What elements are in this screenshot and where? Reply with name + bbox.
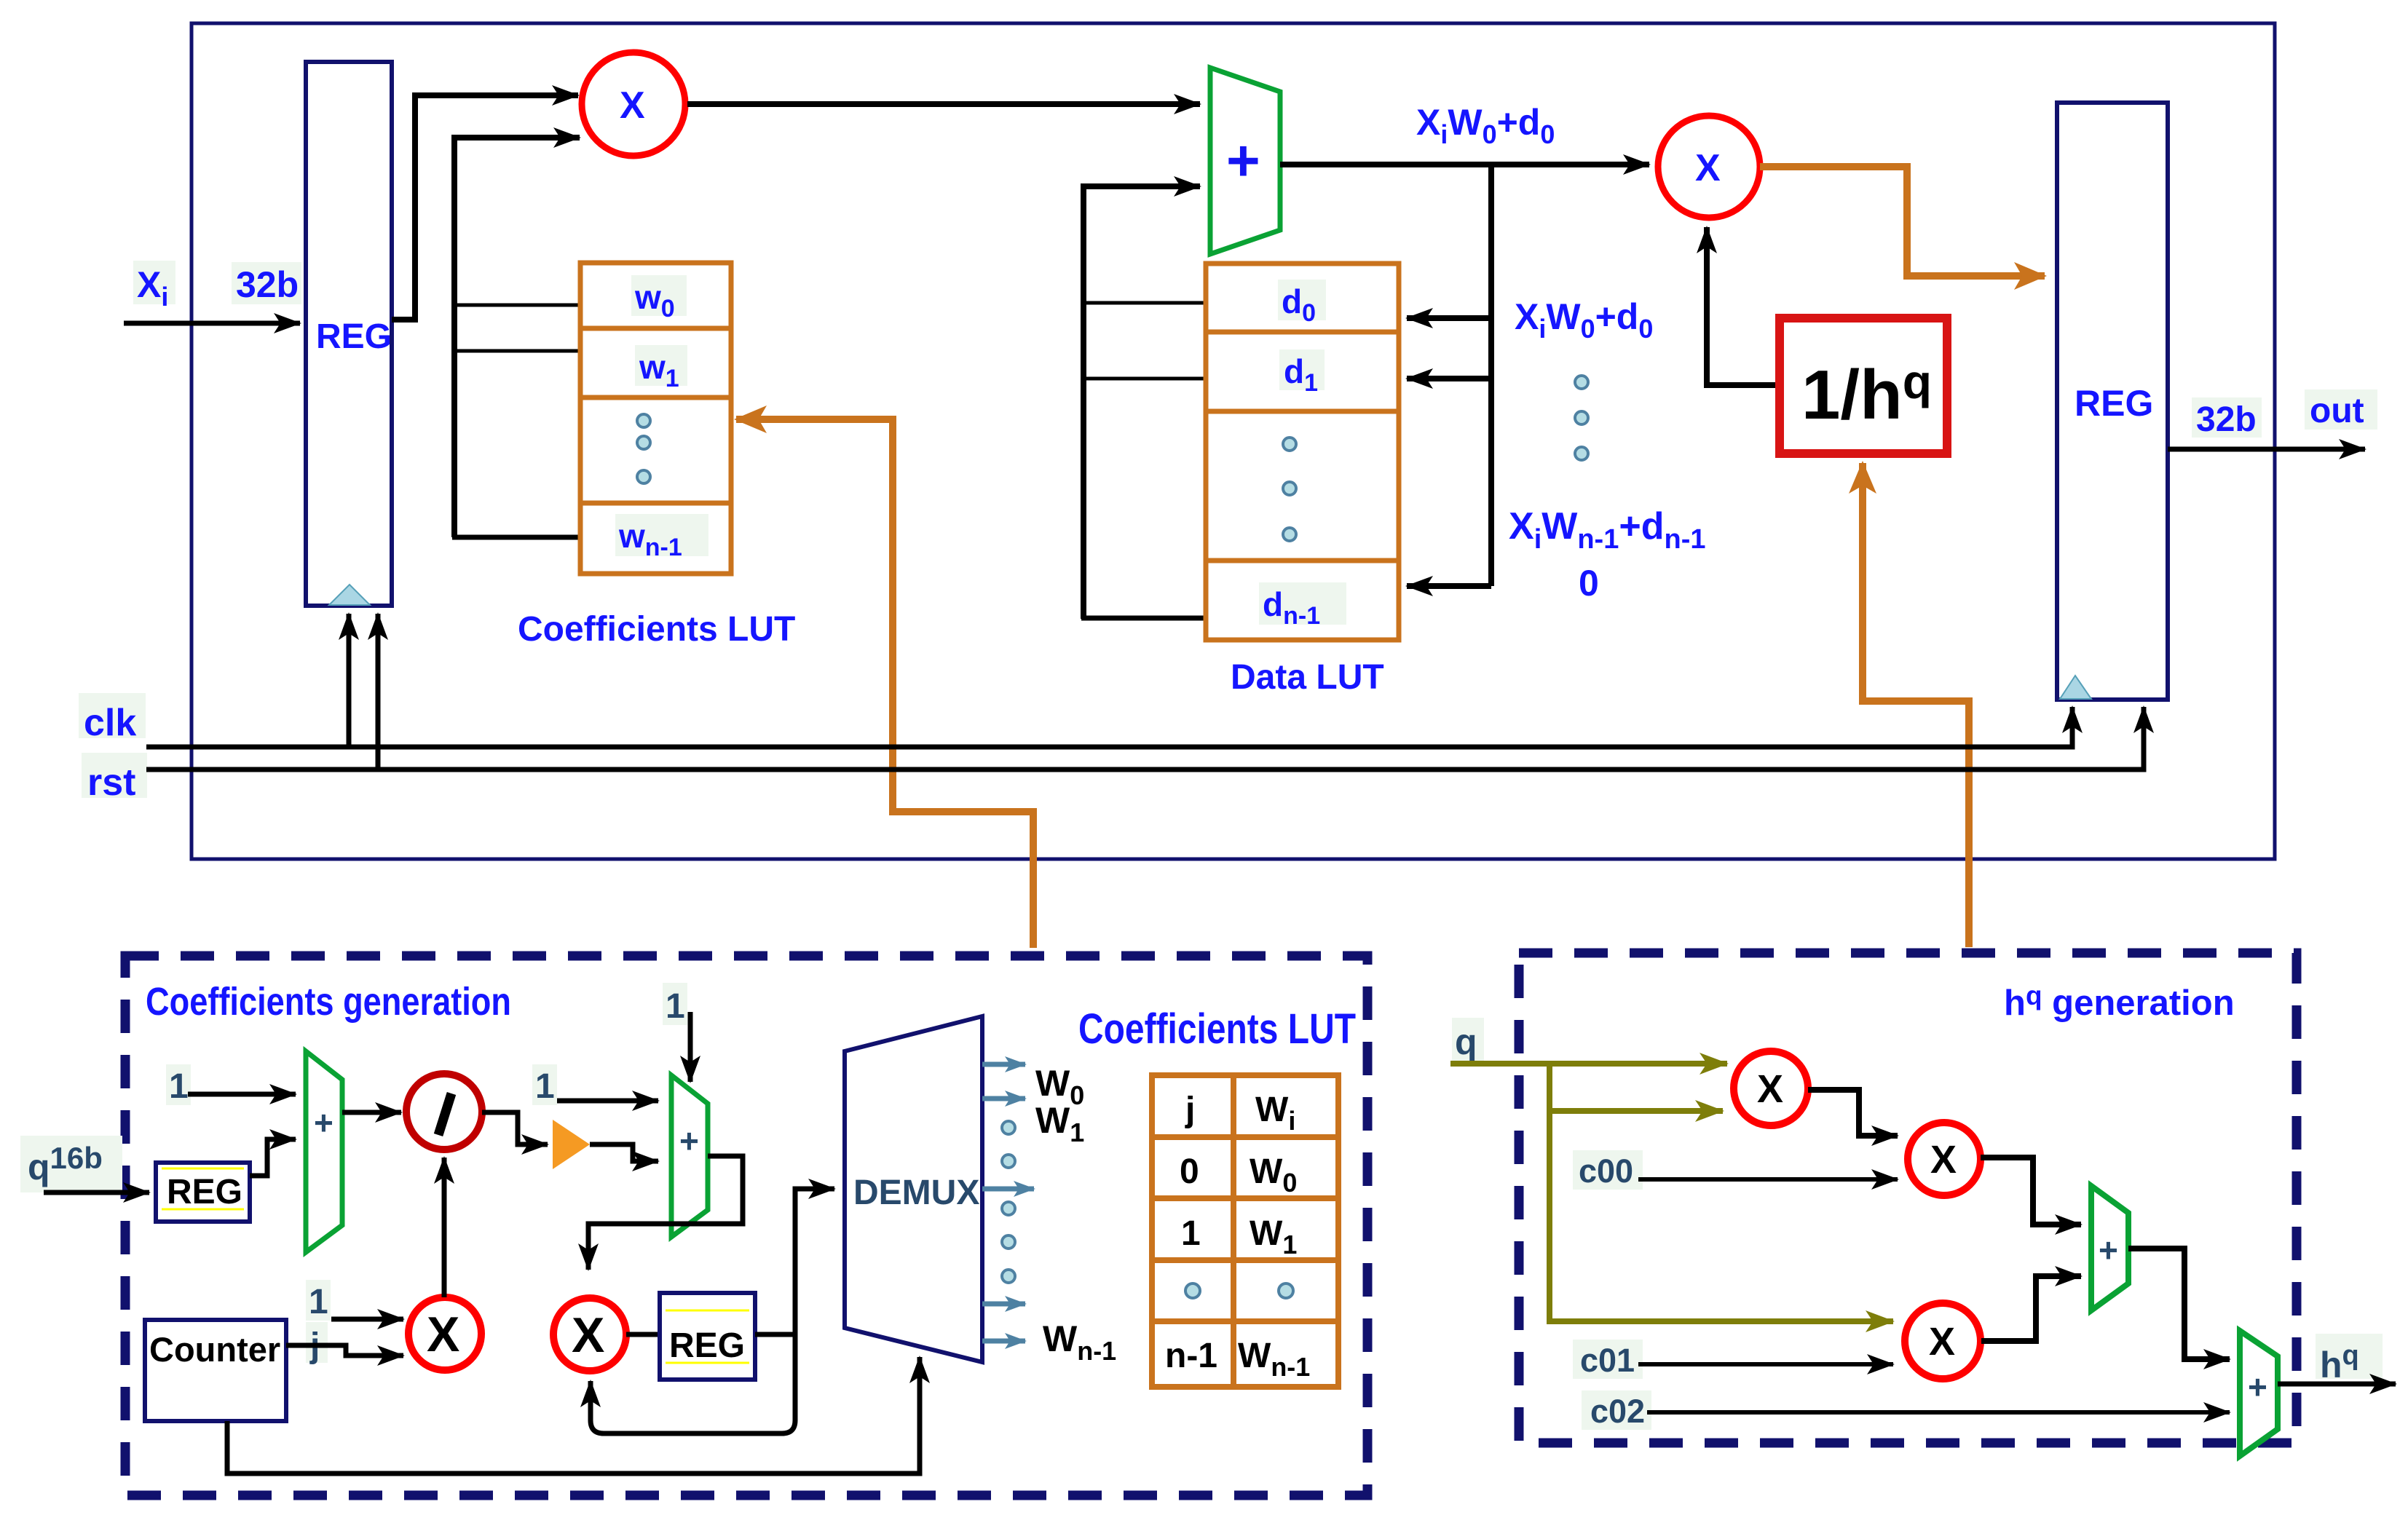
svg-text:+: + — [2099, 1231, 2118, 1269]
svg-text:X: X — [620, 84, 645, 127]
label hq output — [2316, 1334, 2383, 1385]
label j — [306, 1322, 328, 1365]
wire 1 to mux2 — [557, 1099, 658, 1104]
label 32b — [232, 262, 301, 305]
label 1 second — [532, 1064, 557, 1106]
svg-text:+: + — [679, 1122, 699, 1160]
wire X2 output orange to REG2 — [1760, 167, 2045, 276]
svg-text:Coefficients generation: Coefficients generation — [146, 980, 511, 1024]
multiplier X C — [1734, 1051, 1808, 1125]
svg-text:REG: REG — [669, 1326, 745, 1365]
svg-text:+: + — [2248, 1368, 2267, 1406]
label w1 — [635, 345, 687, 392]
wire REG1 to X1 upper — [392, 95, 578, 320]
wire writeback arrow d1 — [1407, 376, 1491, 381]
Data LUT table — [1206, 264, 1399, 640]
wire Counter j to X A — [286, 1345, 403, 1356]
register REG1 — [306, 62, 392, 606]
DEMUX output arrows — [982, 1064, 1034, 1341]
svg-text:Counter: Counter — [149, 1330, 280, 1369]
svg-text:+: + — [314, 1104, 333, 1142]
mux3 adder trapezoid — [2091, 1186, 2128, 1310]
wire bus stub w1 — [454, 349, 580, 353]
REG2 clock triangle — [2060, 676, 2091, 699]
svg-text:+: + — [1226, 128, 1260, 193]
svg-text:c01: c01 — [1580, 1342, 1635, 1379]
table row dots — [1185, 1283, 1293, 1298]
orange wire hq generation into 1/hq — [1863, 463, 1969, 947]
wire coefficients bus to X1 lower — [454, 138, 580, 537]
table row n-1 Wn-1 — [1165, 1337, 1310, 1382]
coefficients LUT dots — [637, 414, 650, 483]
wire divider to buffer — [482, 1112, 548, 1144]
wire out — [2168, 447, 2365, 452]
svg-text:1: 1 — [666, 987, 685, 1026]
svg-text:out: out — [2310, 392, 2364, 430]
label out — [2305, 389, 2377, 430]
wire X1 output to adder — [687, 101, 1200, 107]
label 1 fourth — [306, 1280, 331, 1321]
label q16b — [20, 1136, 122, 1192]
svg-text:X: X — [1930, 1138, 1957, 1182]
register REG B — [660, 1293, 755, 1380]
coefficients LUT j Wi table — [1152, 1075, 1338, 1387]
wire c00 to X D — [1638, 1177, 1898, 1182]
table row 1 W1 — [1181, 1214, 1297, 1259]
right dots column — [1575, 376, 1588, 460]
multiplier X1 — [582, 52, 685, 156]
svg-text:clk: clk — [84, 702, 136, 744]
label d1 — [1279, 349, 1325, 397]
table row j Wi — [1185, 1091, 1295, 1136]
wire writeback arrow dn-1 — [1407, 583, 1491, 589]
wire c01 to X E — [1638, 1362, 1893, 1366]
wire clk branch to REG1 — [347, 614, 352, 747]
label 1 first — [166, 1064, 191, 1106]
divider circle — [406, 1074, 482, 1150]
svg-text:REG: REG — [167, 1173, 242, 1211]
wire q olive branch vertical — [1550, 1064, 1893, 1321]
wire mux1 to divider — [342, 1110, 401, 1115]
svg-text:n-1: n-1 — [1165, 1337, 1217, 1375]
DEMUX trapezoid — [845, 1016, 982, 1362]
svg-text:1: 1 — [309, 1283, 328, 1321]
register REG2 — [2057, 103, 2168, 700]
svg-text:c00: c00 — [1579, 1152, 1633, 1190]
svg-text:32b: 32b — [2196, 400, 2257, 439]
svg-text:Data LUT: Data LUT — [1231, 658, 1384, 697]
svg-text:X: X — [427, 1307, 459, 1362]
wire bus stub w0 — [454, 304, 580, 307]
mux1 adder trapezoid — [306, 1051, 342, 1252]
svg-text:DEMUX: DEMUX — [853, 1174, 979, 1212]
wire q olive main — [1450, 1061, 1727, 1067]
svg-text:1: 1 — [535, 1067, 555, 1106]
svg-text:Coefficients LUT: Coefficients LUT — [518, 610, 795, 649]
multiplier X A — [408, 1297, 481, 1370]
wire data bus stub d0 — [1083, 301, 1209, 305]
wire X D to mux3 — [1981, 1158, 2081, 1225]
wire Counter to DEMUX select — [227, 1357, 920, 1473]
wire feedback REG B to X B — [591, 1334, 795, 1433]
wire 1 to mux1 — [188, 1092, 296, 1097]
svg-text:REG: REG — [2075, 383, 2153, 424]
wire X E to mux3 — [1981, 1276, 2081, 1341]
mux2 adder trapezoid — [671, 1075, 708, 1237]
label Xi — [133, 261, 175, 312]
outer system box — [192, 23, 2275, 859]
wire hq output — [2278, 1382, 2396, 1387]
label q input — [1452, 1018, 1484, 1062]
multiplier X2 — [1658, 116, 1760, 218]
svg-text:j: j — [1185, 1091, 1195, 1129]
svg-text:Coefficients LUT: Coefficients LUT — [1078, 1005, 1356, 1053]
wire X C to X D — [1808, 1090, 1898, 1136]
wire rst branch to REG1 — [376, 614, 381, 770]
svg-text:32b: 32b — [236, 264, 299, 305]
svg-text:1: 1 — [1181, 1214, 1201, 1253]
dashed box Coefficients generation — [125, 956, 1367, 1495]
wire writeback arrow d0 — [1407, 315, 1491, 321]
wire adder output to X2 — [1280, 162, 1649, 167]
label dn-1 — [1259, 582, 1346, 630]
svg-text:rst: rst — [87, 761, 135, 804]
wire data bus stub dn-1 — [1081, 616, 1209, 621]
wire clk — [146, 707, 2072, 747]
wire q olive stub to X C lower — [1550, 1108, 1723, 1114]
wire 1 down into mux2 — [688, 1012, 693, 1082]
wire REG B to DEMUX — [755, 1189, 834, 1334]
wire 1 to X A — [331, 1317, 403, 1322]
block 1/hq — [1780, 318, 1947, 454]
Counter box — [145, 1320, 286, 1421]
wire Xi input — [124, 321, 300, 326]
label d0 — [1278, 280, 1326, 327]
label c00 — [1573, 1150, 1643, 1190]
wire bus stub wn-1 — [452, 535, 580, 540]
label clk — [79, 693, 146, 744]
wire X A to divider — [442, 1158, 447, 1297]
svg-text:c02: c02 — [1590, 1393, 1645, 1430]
wire rst — [146, 707, 2144, 770]
label wn-1 — [615, 514, 708, 561]
svg-text:0: 0 — [1579, 563, 1599, 604]
buffer triangle — [553, 1120, 590, 1169]
svg-text:0: 0 — [1180, 1152, 1199, 1191]
data LUT dots — [1283, 438, 1296, 541]
Coefficients LUT table — [580, 263, 731, 574]
svg-text:q: q — [1455, 1021, 1477, 1062]
wire q input — [44, 1190, 149, 1195]
mux4 adder trapezoid — [2240, 1331, 2278, 1456]
wire mux3 to mux4 — [2128, 1249, 2230, 1359]
wire buffer to mux2 — [590, 1144, 658, 1161]
wire REG A to mux1 — [250, 1139, 296, 1176]
label c01 — [1573, 1340, 1643, 1379]
label 1 third — [663, 983, 687, 1026]
svg-text:X: X — [1695, 147, 1721, 189]
multiplier X E — [1905, 1303, 1981, 1379]
label w0 — [631, 275, 687, 323]
register REG A — [156, 1163, 250, 1222]
wire X B to REG B — [626, 1332, 660, 1337]
wire data bus stub d1 — [1083, 377, 1209, 381]
wire 1/hq output to X2 — [1707, 227, 1780, 385]
label 32b right — [2192, 397, 2262, 439]
wire mux2 output to X B — [588, 1156, 743, 1270]
multiplier X B — [553, 1298, 626, 1371]
svg-text:X: X — [1757, 1067, 1783, 1111]
svg-text:X: X — [572, 1308, 604, 1363]
REG1 clock triangle — [329, 585, 370, 605]
orange wire coefficients generation into coefficients LUT — [736, 419, 1033, 948]
label c02 — [1582, 1390, 1651, 1430]
dashed box hq generation — [1519, 953, 2297, 1443]
svg-text:1: 1 — [169, 1067, 189, 1106]
DEMUX output dots — [1002, 1121, 1015, 1283]
wire writeback bus vertical — [1488, 165, 1494, 586]
wire c02 to mux4 — [1647, 1410, 2230, 1415]
svg-text:REG: REG — [316, 317, 392, 356]
svg-text:X: X — [1929, 1320, 1955, 1364]
label rst — [82, 753, 147, 804]
adder trapezoid — [1210, 68, 1280, 254]
multiplier X D — [1908, 1123, 1981, 1195]
wire data bus to adder second input — [1083, 186, 1200, 619]
table row 0 W0 — [1180, 1152, 1297, 1198]
